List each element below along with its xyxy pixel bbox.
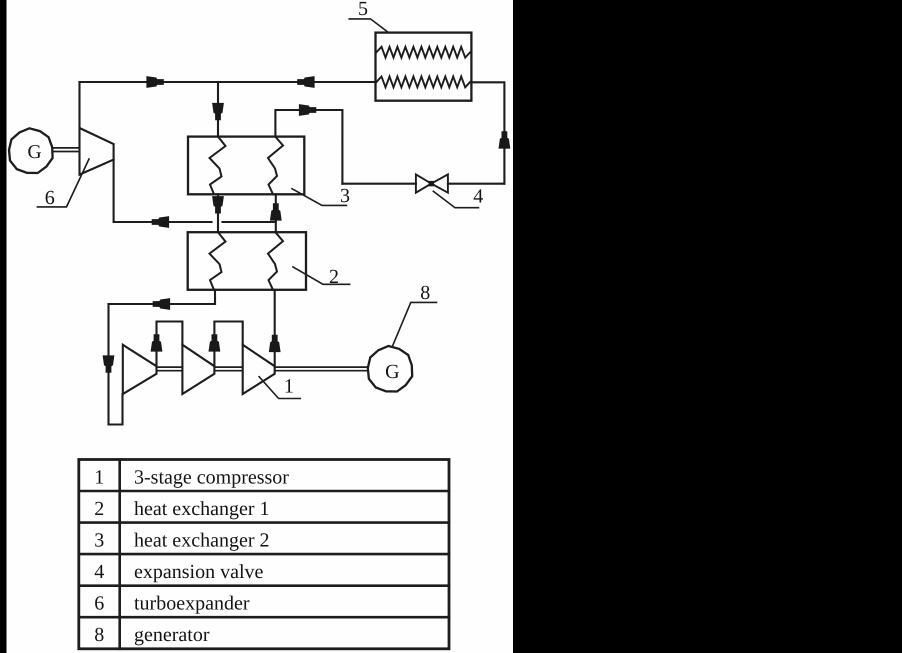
- wire HX1 bottom-left down: [214, 290, 216, 304]
- legend table column divider: [118, 460, 121, 649]
- wire return horizontal: [109, 303, 216, 305]
- svg-text:generator: generator: [134, 624, 210, 646]
- wire HX3 top right exit: [275, 110, 342, 184]
- wire HX1 top-right to HX3 bottom-right: [275, 194, 277, 232]
- svg-text:2: 2: [94, 498, 104, 520]
- svg-text:turboexpander: turboexpander: [134, 593, 250, 615]
- turboexpander body (label 6): [80, 128, 114, 175]
- svg-text:3: 3: [340, 185, 350, 207]
- HX2 right zigzag: [268, 232, 283, 290]
- label 2 pointer: [293, 267, 350, 284]
- cooler 5 lower coil zigzag: [377, 77, 471, 88]
- svg-text:1: 1: [284, 376, 294, 398]
- compressor stage 2: [182, 345, 214, 394]
- wire junction drop to heat exchanger 2 top: [217, 82, 219, 137]
- compressor stage 3: [243, 345, 275, 394]
- wire turboexpander inlet bottom: [114, 160, 212, 222]
- flow arrow right on top wire: [146, 76, 163, 88]
- flow arrow up HX1 to HX3: [270, 203, 282, 220]
- flow arrow left to turboexpander: [152, 216, 169, 228]
- flow arrow up compressor discharge: [269, 335, 281, 352]
- shaft turboexpander to generator G: [53, 147, 80, 149]
- svg-text:3: 3: [94, 530, 104, 552]
- legend table row line 4: [79, 584, 449, 587]
- label 4 pointer: [433, 191, 478, 208]
- HX2 left zigzag: [210, 232, 226, 290]
- label 5 pointer: [349, 19, 388, 33]
- generator G left circle: [9, 128, 53, 173]
- svg-text:G: G: [27, 142, 41, 163]
- HX3 left zigzag: [210, 137, 226, 195]
- heat exchanger 2 box (label 3): [188, 137, 304, 195]
- wire compressor discharge riser: [274, 290, 276, 366]
- flow arrow left from cooler 5: [297, 76, 314, 88]
- HX3 right zigzag: [268, 137, 283, 195]
- compressor stage 1: [123, 345, 157, 394]
- svg-text:3-stage compressor: 3-stage compressor: [134, 466, 289, 488]
- wire left riser to turboexpander: [78, 82, 80, 128]
- legend table row line 5: [79, 616, 449, 619]
- svg-text:2: 2: [329, 266, 339, 288]
- legend table row line 2: [79, 521, 449, 524]
- legend table frame: [79, 460, 449, 649]
- wire valve left: [342, 183, 416, 185]
- label 1 pointer: [259, 377, 300, 399]
- wire valve right: [448, 183, 505, 185]
- flow arrow up interstage 1: [151, 334, 163, 351]
- svg-text:8: 8: [420, 282, 430, 304]
- heat exchanger 1 box (label 2): [188, 232, 306, 290]
- flow arrow up to cooler 5: [499, 131, 511, 148]
- svg-text:heat exchanger 2: heat exchanger 2: [134, 530, 269, 552]
- svg-text:5: 5: [358, 0, 368, 20]
- flow arrow right HX3 to valve: [299, 104, 316, 116]
- svg-text:6: 6: [94, 593, 104, 615]
- interstage pipe 1-2: [157, 322, 183, 367]
- shaft stage3 to generator 8: [275, 366, 368, 368]
- svg-text:4: 4: [94, 561, 104, 583]
- shaft stage2-stage3: [214, 366, 242, 368]
- expansion valve (label 4) left triangle: [416, 174, 431, 192]
- svg-text:4: 4: [473, 185, 483, 207]
- cooler 5 box: [376, 33, 472, 101]
- wire cooler 5 outlet right: [471, 82, 504, 183]
- black margin left: [0, 0, 7, 653]
- legend table row line 3: [79, 553, 449, 556]
- wire top horizontal: [80, 81, 376, 83]
- wire HX3 bottom-left to HX1 top-left: [217, 194, 219, 232]
- wire inlet continuation (crossing gap): [223, 221, 276, 223]
- interstage pipe 2-3: [214, 322, 242, 367]
- flow arrow down HX3 to HX1: [212, 196, 224, 213]
- generator 8 circle: [368, 346, 412, 392]
- svg-text:8: 8: [94, 624, 104, 646]
- svg-text:heat exchanger 1: heat exchanger 1: [134, 498, 269, 520]
- black margin right: [513, 0, 902, 653]
- expansion valve stem square: [429, 181, 434, 186]
- cooler 5 upper coil zigzag: [377, 47, 471, 58]
- label 3 pointer: [292, 189, 347, 206]
- flow arrow up interstage 2: [209, 334, 221, 351]
- flow arrow down to compressor inlet: [103, 355, 115, 372]
- shaft stage1-stage2: [157, 366, 183, 368]
- flow arrow down into HX3: [212, 103, 224, 120]
- legend table row line 1: [79, 490, 449, 493]
- svg-text:6: 6: [45, 187, 55, 209]
- expansion valve right triangle: [431, 174, 448, 192]
- label 6 pointer: [37, 159, 89, 207]
- svg-text:G: G: [385, 361, 399, 383]
- wire left downcomer to compressor inlet: [109, 304, 123, 425]
- label 8 pointer: [393, 302, 437, 346]
- flow arrow left return line: [153, 298, 170, 310]
- svg-text:expansion valve: expansion valve: [134, 561, 264, 583]
- svg-text:1: 1: [94, 466, 104, 488]
